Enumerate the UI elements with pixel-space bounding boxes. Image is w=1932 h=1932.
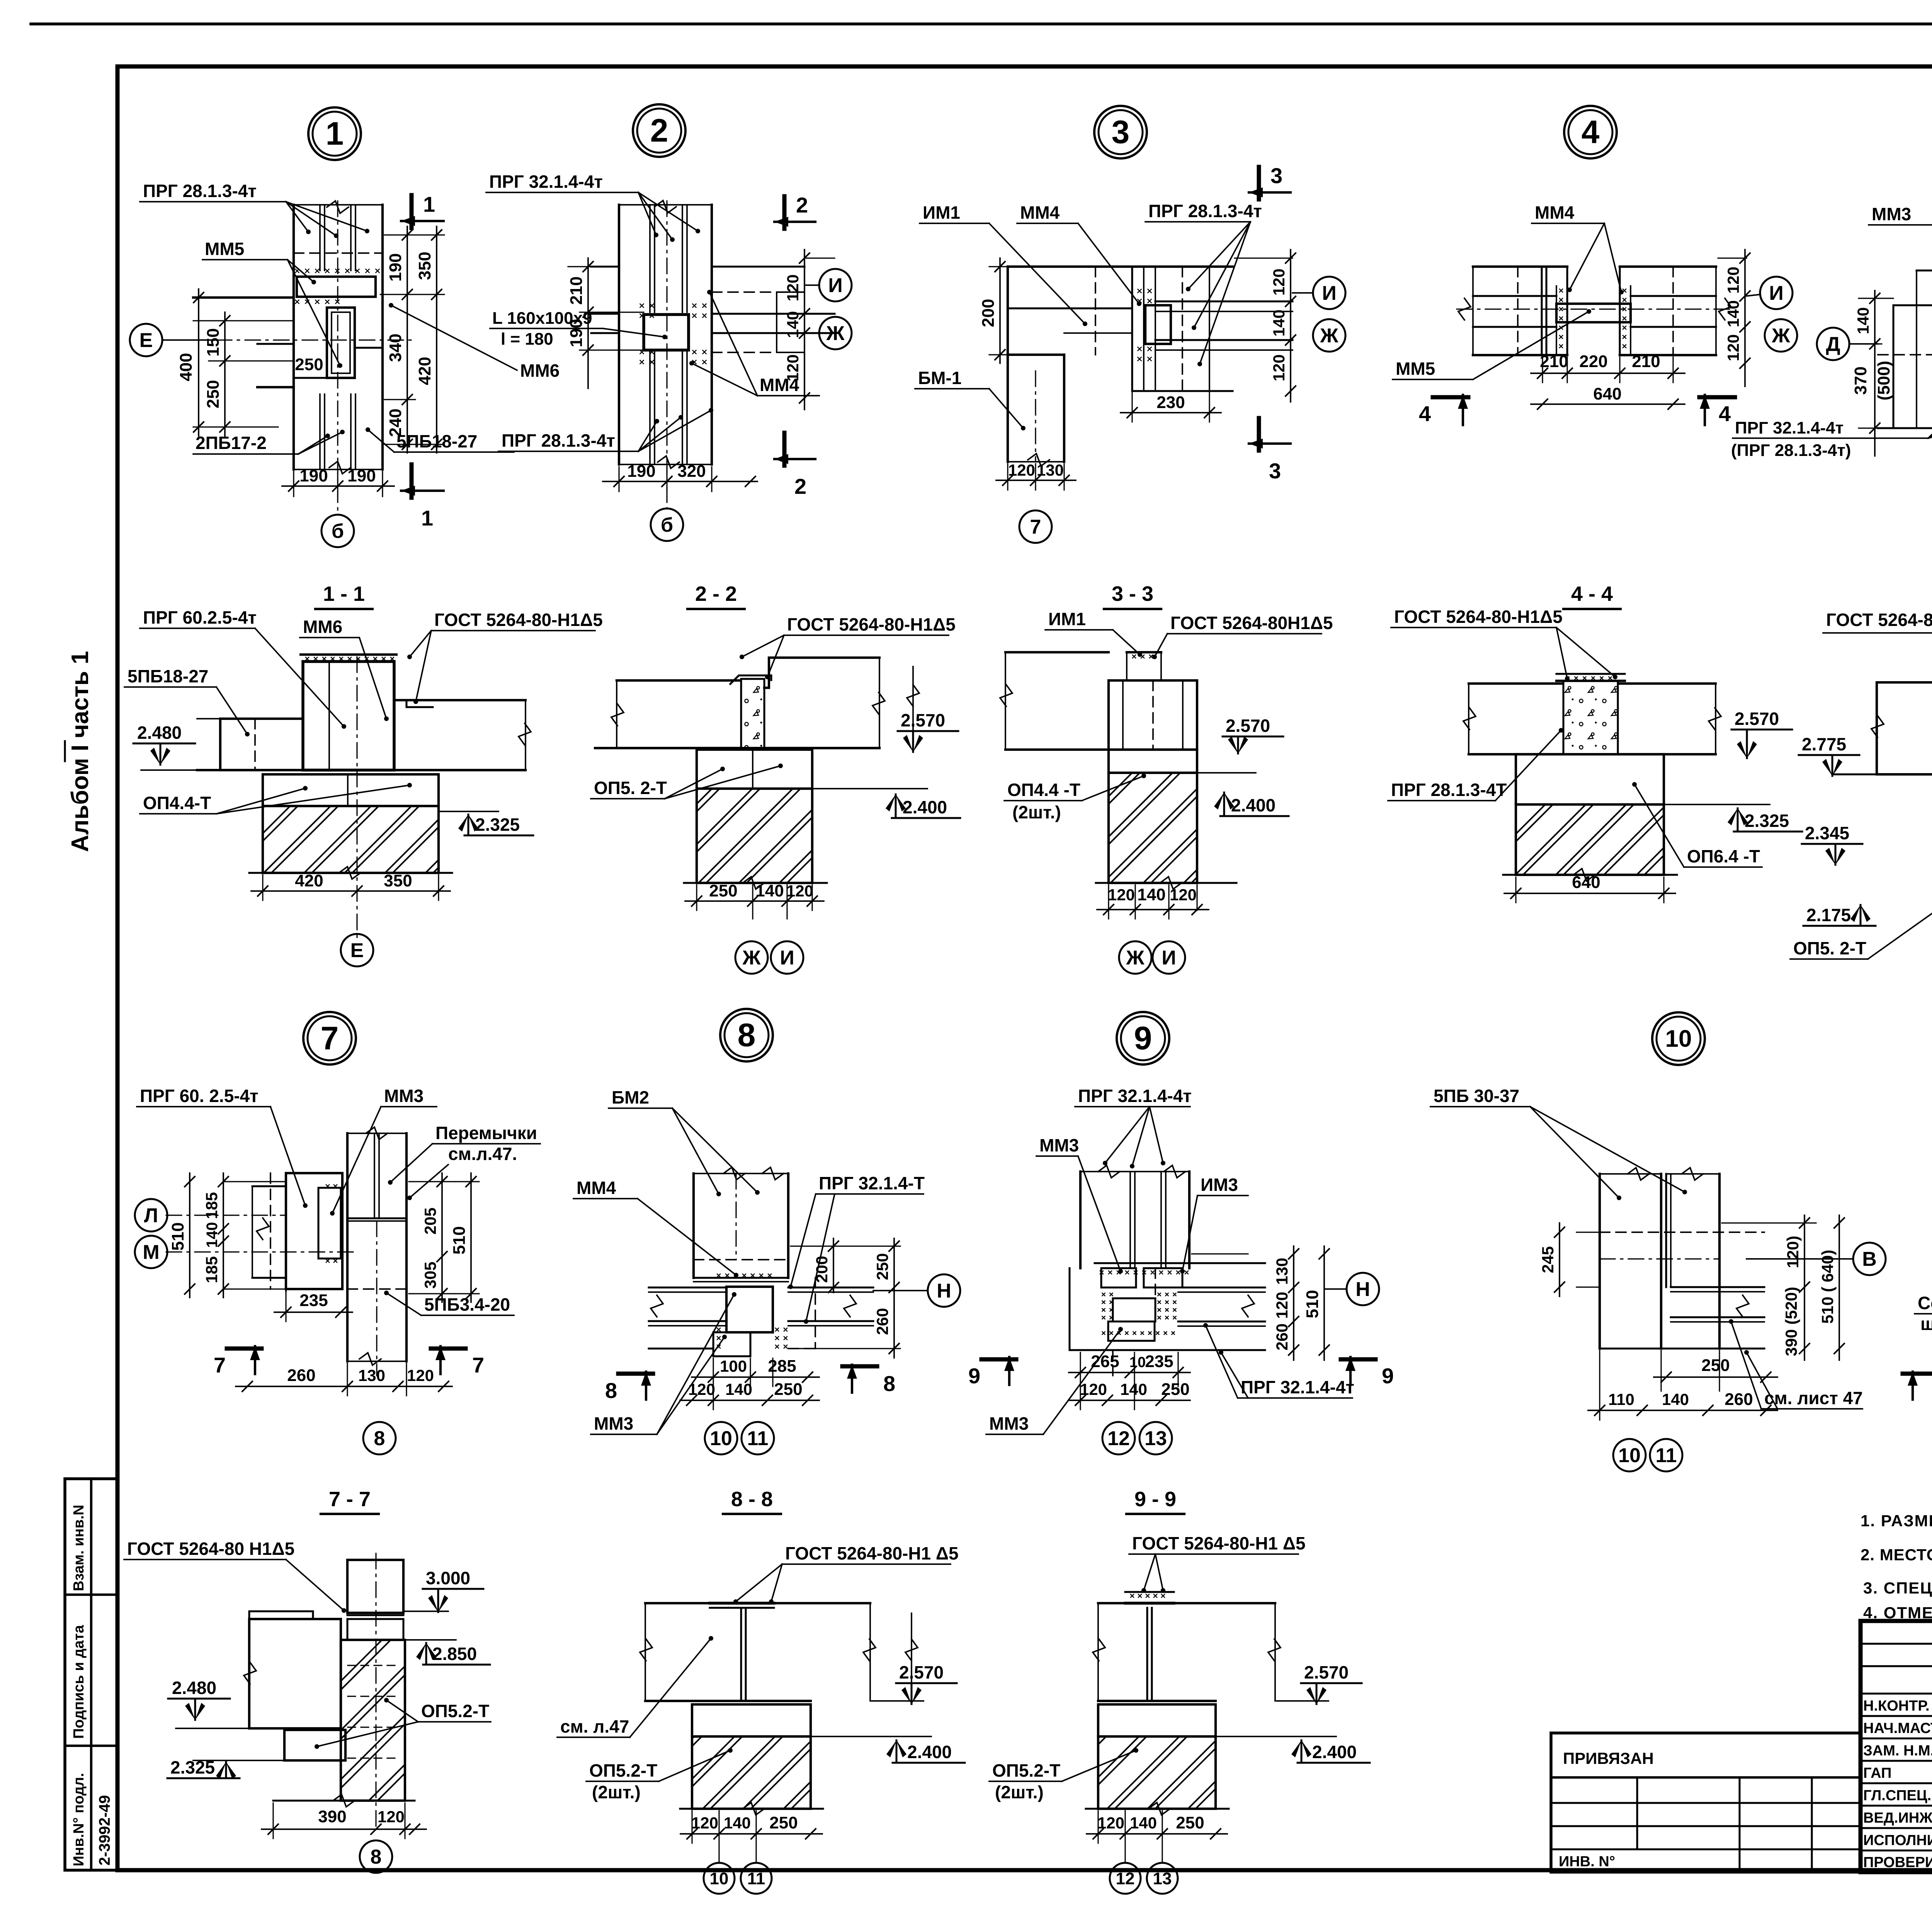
svg-text:(2шт.): (2шт.) <box>1012 802 1061 822</box>
svg-text:(500): (500) <box>1874 361 1893 401</box>
svg-text:210: 210 <box>1632 352 1660 371</box>
section 8-8 base line <box>680 1808 823 1810</box>
section 2-2 foundation hatched block <box>697 789 812 883</box>
detail 4 right dim chain 120 140 120 <box>1718 257 1747 259</box>
svg-text:4: 4 <box>1419 401 1431 426</box>
section 1-1 foundation hatched block <box>263 806 439 873</box>
svg-text:285: 285 <box>768 1357 796 1376</box>
detail 7 dashed centreline left member <box>270 1173 271 1289</box>
section 7-7 top column <box>347 1560 403 1613</box>
svg-text:ПРГ 32.1.4-4т: ПРГ 32.1.4-4т <box>489 172 603 192</box>
title block top small rows <box>1861 1643 1932 1645</box>
section 7-7 left panel <box>249 1611 313 1619</box>
svg-text:ММ4: ММ4 <box>1535 202 1575 223</box>
svg-text:см.л.47.: см.л.47. <box>448 1144 517 1164</box>
svg-text:Ж: Ж <box>1320 325 1339 347</box>
detail 9 centre lower plates <box>1113 1298 1155 1321</box>
detail 7 channel inside <box>318 1188 341 1259</box>
detail 1 upper wall dashed joint <box>294 252 383 254</box>
detail 9 horizontal slab lines right <box>1189 1262 1265 1264</box>
detail 7 axis lines horizontal <box>166 1214 286 1216</box>
svg-text:120: 120 <box>1080 1380 1107 1398</box>
detail 10 horizontal lines right <box>1671 1286 1764 1288</box>
svg-text:235: 235 <box>1145 1352 1173 1371</box>
svg-text:ПРГ 32.1.4-Т: ПРГ 32.1.4-Т <box>819 1173 925 1193</box>
svg-text:ГАП: ГАП <box>1863 1765 1891 1781</box>
section 2-2 right slab with step <box>764 658 879 688</box>
detail 1 section mark 1 top <box>410 195 414 228</box>
detail 2 axis circle I right <box>819 269 852 301</box>
section 4-4 bottom dim 640 <box>1515 877 1516 903</box>
svg-text:245: 245 <box>1539 1246 1557 1273</box>
svg-text:Перемычки: Перемычки <box>435 1123 537 1143</box>
svg-text:Н.КОНТР.: Н.КОНТР. <box>1863 1698 1930 1714</box>
svg-text:И: И <box>1769 282 1783 304</box>
detail 3 horizontal wall inner lines <box>1008 308 1132 310</box>
section 1-1 foundation top band OP4.4-T <box>263 774 439 806</box>
svg-text:4: 4 <box>1582 114 1600 150</box>
svg-text:140: 140 <box>1724 300 1742 327</box>
section 2-2 slab bottom full line <box>595 747 879 749</box>
svg-text:340: 340 <box>386 333 405 362</box>
detail 4 axis circle I <box>1760 277 1793 309</box>
svg-text:120: 120 <box>1724 267 1742 294</box>
detail 8 lower dashed wall <box>788 1348 815 1349</box>
detail 5 left dim chain 140 370 500 <box>1859 298 1893 299</box>
svg-text:265: 265 <box>1091 1352 1119 1371</box>
detail 8 right dims 200 250 260 <box>791 1245 900 1247</box>
detail 7 dashed joint lower <box>347 1288 406 1290</box>
detail 8 axis circles 10 11 <box>705 1422 737 1454</box>
svg-text:10: 10 <box>1618 1444 1641 1467</box>
section 7-7 base line <box>273 1800 415 1802</box>
svg-text:120: 120 <box>1097 1814 1124 1832</box>
svg-text:8: 8 <box>374 1427 385 1450</box>
detail 2 left dim extensions <box>568 266 619 267</box>
detail 5 axis D circle <box>1817 328 1849 360</box>
svg-text:2.175: 2.175 <box>1806 905 1851 925</box>
detail 7 axis circle 8 bottom <box>363 1422 396 1454</box>
svg-text:ИСПОЛНИЛ: ИСПОЛНИЛ <box>1863 1832 1932 1849</box>
svg-text:140: 140 <box>1662 1390 1689 1408</box>
section 9-9 foundation hatched block <box>1098 1736 1216 1809</box>
svg-text:13: 13 <box>1145 1427 1167 1450</box>
svg-text:ММ3: ММ3 <box>989 1413 1029 1434</box>
svg-text:ПРГ 60. 2.5-4т: ПРГ 60. 2.5-4т <box>140 1086 259 1106</box>
detail 7 left horizontal member <box>252 1185 286 1187</box>
detail 2 section mark 2 bottom <box>782 433 787 466</box>
svg-text:ГОСТ 5264-80-Н1Δ5: ГОСТ 5264-80-Н1Δ5 <box>434 610 603 630</box>
svg-text:ОП4.4-Т: ОП4.4-Т <box>143 793 211 813</box>
svg-text:640: 640 <box>1572 873 1600 892</box>
svg-text:ОП4.4 -Т: ОП4.4 -Т <box>1007 780 1080 800</box>
detail 3 axis circle 7 bottom <box>1019 510 1052 543</box>
svg-text:ММ6: ММ6 <box>520 361 560 381</box>
svg-text:2-3992-49: 2-3992-49 <box>96 1795 113 1866</box>
detail 10 section mark 10 up <box>1903 1372 1932 1376</box>
section 4-4 concrete column dotted <box>1563 681 1618 754</box>
svg-text:Сетка из 3ВрI: Сетка из 3ВрI <box>1918 1293 1932 1313</box>
svg-text:240: 240 <box>386 408 405 437</box>
section 1-1 bottom dim 420 350 <box>262 875 263 900</box>
svg-text:ИМ3: ИМ3 <box>1201 1175 1238 1195</box>
svg-text:2: 2 <box>650 112 668 149</box>
detail 1 header circle <box>308 107 361 160</box>
detail 7 dim 235 <box>285 1291 286 1321</box>
section 7-7 axis circle 8 bottom <box>360 1840 392 1873</box>
detail 1 axis circle E <box>130 324 162 356</box>
detail 10 axis circles 10 11 <box>1613 1439 1646 1471</box>
svg-text:1: 1 <box>423 192 435 216</box>
svg-text:640: 640 <box>1593 384 1621 403</box>
detail 2 right dim chain 120 140 120 <box>806 257 835 259</box>
section 4-4 ground line <box>1503 874 1677 876</box>
section 4-4 circle 10 below <box>1652 1012 1705 1065</box>
svg-text:320: 320 <box>677 462 706 481</box>
svg-text:Л: Л <box>144 1204 158 1227</box>
section 1-1 right slab <box>394 699 526 701</box>
detail 7 section mark 7 left <box>227 1347 262 1351</box>
section 4-4 slab band <box>1469 682 1563 685</box>
svg-text:2.480: 2.480 <box>172 1678 216 1698</box>
svg-text:ГОСТ 5264-80Н1Δ5: ГОСТ 5264-80Н1Δ5 <box>1170 613 1333 633</box>
section 5-5 big slab <box>1877 682 1932 774</box>
svg-text:205: 205 <box>421 1207 439 1235</box>
section 9-9 base line <box>1086 1808 1229 1810</box>
svg-text:2.400: 2.400 <box>1312 1742 1357 1762</box>
section 3-3 foundation hatched block <box>1109 773 1197 883</box>
svg-text:130: 130 <box>1273 1258 1291 1285</box>
detail 7 section mark 7 right <box>431 1347 466 1351</box>
svg-text:ГОСТ 5264-80-Н1Δ5: ГОСТ 5264-80-Н1Δ5 <box>1394 607 1563 627</box>
svg-text:250: 250 <box>774 1380 802 1399</box>
svg-text:3: 3 <box>1270 163 1282 188</box>
svg-text:2.400: 2.400 <box>907 1742 952 1762</box>
svg-text:2.570: 2.570 <box>901 710 945 730</box>
svg-text:7: 7 <box>1030 516 1041 538</box>
detail 4 bottom dim 210 220 210 <box>1542 357 1543 383</box>
svg-text:510 ( 640): 510 ( 640) <box>1818 1250 1837 1323</box>
svg-text:7: 7 <box>321 1020 339 1056</box>
detail 1 section mark 1 bottom <box>410 464 414 498</box>
detail 7 lower wall dash-dot axis <box>376 1221 377 1376</box>
svg-text:120: 120 <box>378 1808 405 1826</box>
svg-text:И: И <box>780 947 794 969</box>
svg-text:2: 2 <box>794 474 806 498</box>
svg-text:5ПБ18-27: 5ПБ18-27 <box>128 666 208 686</box>
detail 3 dim 200 left <box>989 266 1008 267</box>
detail 3 section mark 3 top <box>1257 167 1261 199</box>
section 3-3 column <box>1109 680 1197 750</box>
detail 1 left dim chain 400 <box>198 289 199 436</box>
section 4-4 foundation hatched block <box>1516 804 1664 875</box>
section 7-7 small box below left <box>284 1730 345 1760</box>
detail 4 horizontal wall band <box>1473 265 1567 268</box>
section 3-3 foundation band <box>1109 750 1197 773</box>
svg-text:190: 190 <box>386 253 405 281</box>
svg-text:ОП5.2-Т: ОП5.2-Т <box>589 1760 657 1781</box>
section 8-8 I-beam centre <box>740 1608 742 1701</box>
detail 1 lintel plate MM5 with weld crosses <box>296 269 379 273</box>
svg-text:2.325: 2.325 <box>475 815 520 835</box>
detail 8 section mark 8 right <box>842 1364 877 1369</box>
svg-text:ММ3: ММ3 <box>594 1413 633 1434</box>
svg-text:2ПБ17-2: 2ПБ17-2 <box>196 433 267 453</box>
svg-text:120: 120 <box>688 1380 715 1398</box>
svg-text:110: 110 <box>1608 1390 1634 1408</box>
detail 8 section mark 8 left <box>618 1372 653 1376</box>
detail 1 vertical wall edges <box>293 205 295 469</box>
svg-text:150: 150 <box>204 328 223 356</box>
svg-text:3 - 3: 3 - 3 <box>1112 582 1153 605</box>
section 2-2 foundation top band <box>697 750 812 789</box>
svg-text:235: 235 <box>299 1291 328 1310</box>
svg-text:(2шт.): (2шт.) <box>995 1782 1044 1802</box>
svg-text:ММ5: ММ5 <box>1396 359 1435 379</box>
detail 3 dim 230 <box>1131 393 1133 422</box>
detail 10 right dim chains <box>1722 1222 1816 1223</box>
svg-text:260: 260 <box>873 1308 891 1335</box>
svg-text:Ж: Ж <box>1126 947 1145 969</box>
svg-text:8: 8 <box>883 1371 895 1396</box>
svg-text:230: 230 <box>1156 393 1185 412</box>
section 3-3 left slab <box>1005 651 1109 653</box>
svg-text:ОП6.4 -Т: ОП6.4 -Т <box>1687 846 1760 866</box>
svg-text:2.850: 2.850 <box>432 1644 477 1664</box>
svg-text:3. СПЕЦИФИКАЦИЯ МОНТАЖНЫХ МЕ: 3. СПЕЦИФИКАЦИЯ МОНТАЖНЫХ МЕТАЛЛИЧЕСКИХ … <box>1863 1578 1932 1597</box>
svg-text:ММ4: ММ4 <box>577 1178 616 1198</box>
svg-text:ЗАМ. Н.М.: ЗАМ. Н.М. <box>1863 1743 1932 1759</box>
section 2-2 ground line <box>684 882 827 884</box>
svg-text:см. лист 47: см. лист 47 <box>1764 1388 1863 1408</box>
svg-text:ГЛ.СПЕЦ.: ГЛ.СПЕЦ. <box>1863 1787 1931 1804</box>
svg-text:ММ3: ММ3 <box>1039 1135 1079 1155</box>
detail 8 header circle <box>720 1009 773 1061</box>
svg-text:120): 120) <box>1784 1236 1802 1268</box>
section 8-8 foundation hatched block <box>692 1736 811 1809</box>
svg-text:10: 10 <box>710 1427 732 1450</box>
svg-text:120: 120 <box>784 274 802 301</box>
section 9-9 I-beam centre <box>1146 1608 1148 1701</box>
svg-text:1. РАЗМЕРЫ В СКОБКАХ ДЛЯ РАСЧЕ: 1. РАЗМЕРЫ В СКОБКАХ ДЛЯ РАСЧЕТНОЙ ТЕМПЕ… <box>1861 1511 1932 1530</box>
detail 2 header circle <box>633 104 685 157</box>
svg-text:БМ-1: БМ-1 <box>918 368 961 388</box>
svg-text:ГОСТ 5264-80-Н1 Δ5: ГОСТ 5264-80-Н1 Δ5 <box>1132 1533 1306 1553</box>
svg-text:ММ6: ММ6 <box>303 617 342 637</box>
detail 2 wall axis vertical <box>666 201 667 508</box>
svg-text:3.000: 3.000 <box>426 1568 470 1588</box>
svg-text:190: 190 <box>567 319 586 347</box>
detail 2 axis circle Zh right <box>819 317 852 349</box>
svg-text:ПРГ 32.1.4-4т: ПРГ 32.1.4-4т <box>1078 1086 1192 1106</box>
svg-text:140: 140 <box>204 1222 221 1248</box>
detail 3 bottom dim 120 130 <box>1007 464 1008 490</box>
section 8-8 slab lines <box>645 1602 870 1604</box>
detail 3 section mark 3 bottom <box>1257 418 1261 451</box>
svg-text:100: 100 <box>720 1357 747 1375</box>
svg-text:11: 11 <box>747 1427 769 1450</box>
detail 8 axis circle N <box>928 1274 960 1307</box>
svg-text:ГОСТ 5264-80 Н1Δ5: ГОСТ 5264-80 Н1Δ5 <box>127 1539 294 1559</box>
svg-text:9 - 9: 9 - 9 <box>1134 1488 1176 1511</box>
svg-text:Ж: Ж <box>742 947 761 969</box>
detail 3 header circle <box>1094 106 1147 158</box>
section 8-8 top flange plate <box>710 1602 774 1605</box>
detail 2 bottom dim 190 320 <box>618 467 619 492</box>
detail 2 left dim chain 210 190 <box>587 258 589 388</box>
detail 7 axis circle L <box>135 1199 167 1231</box>
title block outer box <box>1861 1621 1932 1872</box>
detail 8 top vertical wall <box>692 1173 695 1278</box>
svg-text:120: 120 <box>1270 269 1288 296</box>
section 3-3 IM1 weld cap <box>1133 655 1153 658</box>
detail 5 left wall step outline <box>1917 270 1932 272</box>
svg-text:9: 9 <box>1134 1020 1152 1056</box>
section 7-7 bottom dims 390 120 <box>272 1803 274 1838</box>
svg-text:БМ2: БМ2 <box>612 1087 649 1107</box>
detail 1 axis circle b bottom <box>321 515 354 547</box>
detail 10 vertical wall right strip <box>1665 1174 1667 1287</box>
detail 3 axis circle Zh <box>1313 319 1345 352</box>
svg-text:190: 190 <box>299 466 328 485</box>
detail 9 axis circle N <box>1347 1273 1379 1305</box>
svg-text:ОП5. 2-Т: ОП5. 2-Т <box>594 778 667 798</box>
svg-text:2 - 2: 2 - 2 <box>695 582 737 605</box>
detail 8 centre plates and welds <box>694 1277 788 1279</box>
svg-text:185: 185 <box>202 1256 221 1283</box>
section 2-2 bottom dims 250 140 120 <box>696 885 697 910</box>
svg-text:130: 130 <box>1037 461 1064 479</box>
section 4-4 foundation top band <box>1516 754 1664 804</box>
svg-text:8: 8 <box>371 1846 382 1868</box>
svg-text:120: 120 <box>407 1366 434 1384</box>
svg-text:12: 12 <box>1107 1427 1130 1450</box>
section 1-1 slab bottom line full <box>197 769 526 771</box>
svg-text:420: 420 <box>295 871 323 890</box>
section 3-3 bottom dims 120 140 120 <box>1108 885 1109 919</box>
detail 10 vertical wall left <box>1599 1174 1601 1349</box>
svg-text:Ж: Ж <box>826 322 845 345</box>
section 9-9 slab lines <box>1098 1602 1275 1604</box>
detail 10 axis circle V <box>1853 1243 1886 1275</box>
detail 3 horizontal wall top edge <box>1008 265 1233 268</box>
svg-text:2.480: 2.480 <box>137 723 182 743</box>
svg-text:260: 260 <box>1725 1390 1753 1409</box>
svg-text:ГОСТ 5264-80 Н1 Δ5: ГОСТ 5264-80 Н1 Δ5 <box>1826 610 1932 630</box>
detail 9 bottom dims 265 10 235 120 140 250 <box>1080 1352 1081 1410</box>
svg-text:140: 140 <box>784 311 802 338</box>
svg-text:2.570: 2.570 <box>1304 1662 1349 1682</box>
detail 1 channel below plate <box>327 308 355 378</box>
detail 9 header circle <box>1117 1012 1169 1065</box>
svg-text:120: 120 <box>691 1814 718 1832</box>
svg-text:ПРГ 32.1.4-4т: ПРГ 32.1.4-4т <box>1241 1377 1354 1397</box>
detail 7 bottom dims 260 130 120 <box>347 1363 348 1396</box>
section 1-1 left slab <box>220 719 303 770</box>
svg-text:10: 10 <box>710 1869 729 1888</box>
svg-text:(2шт.): (2шт.) <box>592 1782 641 1802</box>
svg-text:510: 510 <box>168 1222 187 1250</box>
detail 9 dashed verticals lower <box>1112 1350 1114 1376</box>
svg-text:2.775: 2.775 <box>1802 734 1846 754</box>
svg-text:9: 9 <box>968 1364 980 1388</box>
svg-text:4: 4 <box>1719 401 1731 426</box>
detail 4 bottom dim 640 <box>1531 403 1685 405</box>
svg-text:510: 510 <box>450 1226 469 1254</box>
svg-text:390 (520): 390 (520) <box>1782 1287 1800 1356</box>
svg-text:ИНВ. N°: ИНВ. N° <box>1559 1854 1615 1870</box>
detail 5 horizontal wall left of joint <box>1878 354 1932 355</box>
detail 9 section mark 9 left <box>981 1357 1016 1362</box>
svg-text:250: 250 <box>1701 1356 1730 1375</box>
detail 2 horizontal wall left stubs <box>591 266 619 268</box>
svg-text:1: 1 <box>326 116 344 152</box>
svg-text:120: 120 <box>784 354 802 381</box>
svg-text:ОП5. 2-Т: ОП5. 2-Т <box>1793 938 1866 958</box>
svg-text:б: б <box>661 514 673 536</box>
detail 7 header circle <box>303 1012 356 1065</box>
svg-text:140: 140 <box>755 881 784 900</box>
svg-text:370: 370 <box>1851 366 1870 395</box>
section 1-1 axis circle E bottom <box>341 934 373 966</box>
svg-text:140: 140 <box>1130 1814 1157 1832</box>
svg-text:ПРГ 32.1.4-4т: ПРГ 32.1.4-4т <box>1735 418 1844 437</box>
svg-text:140: 140 <box>725 1380 752 1398</box>
section 9-9 bottom dims 120 140 250 <box>1097 1811 1099 1843</box>
detail 4 opening walls with weld hatch <box>1566 267 1568 355</box>
svg-text:10: 10 <box>1665 1026 1692 1052</box>
svg-text:120: 120 <box>786 882 813 900</box>
section 1-1 right weld angle step <box>394 700 433 707</box>
svg-text:4 - 4: 4 - 4 <box>1571 582 1613 605</box>
svg-text:И: И <box>828 274 842 297</box>
svg-text:190: 190 <box>627 462 655 481</box>
svg-text:510: 510 <box>1303 1290 1322 1318</box>
detail 4 section mark 4 up right <box>1699 395 1735 400</box>
svg-text:l = 180: l = 180 <box>501 330 553 349</box>
detail 1 bottom dim 190 190 <box>293 471 294 497</box>
svg-text:11: 11 <box>1656 1444 1677 1467</box>
detail 3 right dim chain 120 140 120 <box>1235 257 1293 259</box>
detail 2 centre angle plate L160x100x9 <box>640 304 654 318</box>
svg-text:Н: Н <box>1355 1278 1370 1301</box>
svg-text:ММ4: ММ4 <box>1020 202 1060 223</box>
detail 3 right wall part with plates <box>1131 267 1133 391</box>
svg-text:130: 130 <box>358 1366 385 1384</box>
svg-text:2.570: 2.570 <box>1226 716 1270 736</box>
svg-text:250: 250 <box>769 1813 798 1832</box>
svg-text:М: М <box>143 1241 159 1264</box>
detail 9 top vertical wall <box>1079 1172 1082 1268</box>
title block name rows <box>1861 1693 1932 1695</box>
section 7-7 centreline axis <box>375 1553 376 1832</box>
svg-text:(ПРГ 28.1.3-4т): (ПРГ 28.1.3-4т) <box>1731 441 1851 460</box>
svg-text:В: В <box>1862 1248 1877 1270</box>
section 2-2 vertical ref line right <box>912 667 914 731</box>
svg-text:ОП5.2-Т: ОП5.2-Т <box>992 1760 1060 1781</box>
svg-text:ВЕД.ИНЖ.: ВЕД.ИНЖ. <box>1863 1810 1932 1826</box>
outer sheet border top <box>31 22 1932 26</box>
svg-text:11: 11 <box>747 1869 765 1888</box>
detail 9 axis circles 12 13 <box>1102 1422 1135 1454</box>
detail 2 horizontal walls crossing right <box>712 266 804 268</box>
detail 9 wall left edge lower <box>1069 1268 1071 1350</box>
detail 10 dim 245 left <box>1577 1231 1600 1233</box>
detail 4 dashed joints <box>1517 267 1519 355</box>
detail 1 left dim chain 150 250 <box>224 312 226 436</box>
svg-text:Подпись и дата: Подпись и дата <box>71 1625 87 1739</box>
svg-text:350: 350 <box>384 871 412 890</box>
